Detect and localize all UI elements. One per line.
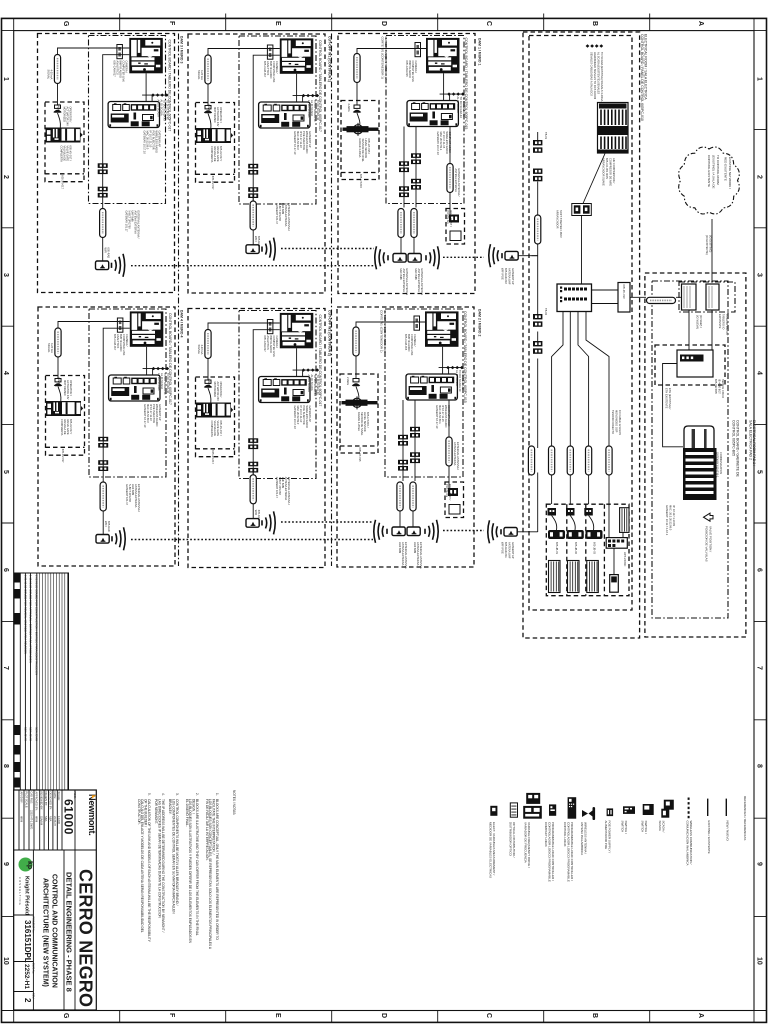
svg-text:FO CABLE 12 HILOS: FO CABLE 12 HILOS xyxy=(618,410,622,435)
svg-text:CONTROL BOARD / PANEL DE CONTR: CONTROL BOARD / PANEL DE CONTROL 605PC-0… xyxy=(640,34,644,121)
svg-text:3.: 3. xyxy=(175,793,179,796)
svg-text:NBA JS AR: NBA JS AR xyxy=(24,727,28,741)
svg-text:GATEWAY: 10.11.7.1.10.1: GATEWAY: 10.11.7.1.10.1 xyxy=(665,505,669,536)
svg-text:APPROVED BY:: APPROVED BY: xyxy=(35,792,39,811)
svg-text:MAC: 26.5.26.52.99.0: MAC: 26.5.26.52.99.0 xyxy=(669,505,673,531)
svg-text:kp: kp xyxy=(26,861,33,869)
svg-text:SWITCH: SWITCH xyxy=(641,821,645,833)
svg-text:IE-4000 8GT: IE-4000 8GT xyxy=(718,379,722,394)
svg-text:COMMUNICATION: COMMUNICATION xyxy=(719,452,723,474)
cell 3 xyxy=(584,508,593,516)
svg-text:(IO NEW) /: (IO NEW) / xyxy=(699,315,703,328)
svg-text:WIFI POE: WIFI POE xyxy=(501,542,505,554)
svg-text:E: E xyxy=(274,1013,281,1018)
svg-text:TB-02: TB-02 xyxy=(544,308,548,316)
svg-text:ANTENA INALAMBRICA: ANTENA INALAMBRICA xyxy=(580,822,584,855)
REVISION TABLE xyxy=(14,573,69,790)
svg-text:G: G xyxy=(62,1013,69,1019)
P2 tail xyxy=(96,477,141,550)
svg-text:SCALE:: SCALE: xyxy=(57,792,61,802)
svg-text:1:1000: 1:1000 xyxy=(57,816,61,824)
svg-text:TO CONTROL ROOM: TO CONTROL ROOM xyxy=(716,155,720,185)
svg-text:4: 4 xyxy=(756,371,763,375)
legend: vfd icon xyxy=(523,793,542,819)
svg-text:7: 7 xyxy=(2,666,9,670)
legend: optical distributor icon xyxy=(510,803,517,817)
svg-text:EXISTENTE: EXISTENTE xyxy=(718,314,722,329)
svg-text:MRM: MRM xyxy=(20,816,24,822)
svg-text:B: B xyxy=(591,1013,598,1018)
svg-text:1: 1 xyxy=(2,77,9,81)
legend: compact logix plc icon xyxy=(549,804,556,815)
svg-text:POR NEWMONT.: POR NEWMONT. xyxy=(154,799,158,824)
ZONE LETTERS TOP xyxy=(62,21,704,27)
svg-text:REG:: REG: xyxy=(73,792,77,800)
svg-text:605-RAD-011: 605-RAD-011 xyxy=(504,542,508,558)
svg-text:CONSTRUCTOR.: CONSTRUCTOR. xyxy=(137,799,141,825)
svg-text:605-JB-01: 605-JB-01 xyxy=(555,542,559,555)
svg-text:D: D xyxy=(380,1013,387,1018)
svg-text:CUT-OFF W2 (CONTINUA 2): CUT-OFF W2 (CONTINUA 2) xyxy=(328,310,332,356)
svg-text:MONOMODO OSP: MONOMODO OSP xyxy=(615,410,619,433)
zone B lower radio xyxy=(504,528,517,537)
wire capsules xyxy=(528,446,534,475)
svg-text:ETH (EXISTING) /: ETH (EXISTING) / xyxy=(668,388,672,409)
svg-text:NBA JS AR: NBA JS AR xyxy=(29,727,33,741)
svg-text:AIR COMPRESSOR /: AIR COMPRESSOR / xyxy=(612,158,616,184)
svg-text:CONTROL 605PC-B05: CONTROL 605PC-B05 xyxy=(732,420,736,456)
svg-text:LOS COMPONENTES DE CONTROL SER: LOS COMPONENTES DE CONTROL SERAN EN SU M… xyxy=(172,799,176,914)
svg-text:DAM 4 / MURO 4: DAM 4 / MURO 4 xyxy=(180,310,184,337)
svg-text:NBA: NBA xyxy=(44,816,48,822)
svg-text:BLOCKS ARE ILLUSTRATIVE AND TH: BLOCKS ARE ILLUSTRATIVE AND THEY CAN DIF… xyxy=(195,799,199,936)
svg-text:POSICION DE VALVULAS: POSICION DE VALVULAS xyxy=(705,526,709,562)
svg-text:A: A xyxy=(697,1013,704,1018)
ZONE NUMBERS LEFT xyxy=(2,77,9,965)
svg-text:F: F xyxy=(168,21,175,26)
svg-text:CAD FILE:: CAD FILE: xyxy=(30,792,34,805)
Newmont logo xyxy=(87,794,97,836)
zone B upper radio xyxy=(505,251,518,260)
right column labels xyxy=(732,420,757,478)
legend: wireless dotted symbol xyxy=(688,798,690,820)
legend: wireless antenna icon xyxy=(582,807,595,820)
svg-text:AL SCADA (EXISTENTE) SENALES: AL SCADA (EXISTENTE) SENALES xyxy=(597,52,601,94)
legend: poe power supply icon xyxy=(607,808,614,816)
svg-text:(IO NUEVA): (IO NUEVA) xyxy=(696,315,700,329)
svg-text:TO EXISTING IO /: TO EXISTING IO / xyxy=(725,314,729,336)
patch box to gateway link lines xyxy=(592,290,619,304)
four field wires with jogs xyxy=(552,312,609,505)
svg-text:5: 5 xyxy=(2,470,9,474)
gateway device xyxy=(683,426,717,500)
right column inner dash-dot box xyxy=(652,281,728,618)
svg-text:NEW / NUEVO: NEW / NUEVO xyxy=(726,821,730,842)
svg-text:FIN DE FACILITAR LA INTERPRETA: FIN DE FACILITAR LA INTERPRETACION. xyxy=(205,799,209,861)
svg-text:EL DISENO FINAL.: EL DISENO FINAL. xyxy=(185,799,189,827)
svg-text:BRADLEY.: BRADLEY. xyxy=(168,799,172,815)
svg-text:DETAIL ENGINEERING - PHASE 8: DETAIL ENGINEERING - PHASE 8 xyxy=(65,872,74,992)
svg-text:10: 10 xyxy=(756,957,763,965)
svg-text:8: 8 xyxy=(2,764,9,768)
svg-text:7: 7 xyxy=(756,666,763,670)
wire switch to gateway xyxy=(663,364,683,447)
ZONE TICKS TOP/BOTTOM xyxy=(120,14,650,1023)
svg-text:SWITCH CISCO: SWITCH CISCO xyxy=(721,379,725,398)
605PC-010 narrow box xyxy=(618,283,630,313)
ZONE TICKS LEFT/RIGHT xyxy=(2,129,767,916)
svg-text:GATEWAY AP: GATEWAY AP xyxy=(511,542,515,559)
svg-text:D: D xyxy=(380,21,387,26)
DAM labels xyxy=(180,36,482,356)
svg-text:TENDIDO DIRECTO: TENDIDO DIRECTO xyxy=(611,410,615,434)
svg-text:HARDWIRED SIGNALS TO DCS ROOM: HARDWIRED SIGNALS TO DCS ROOM xyxy=(593,52,597,99)
svg-text:IP: 10.117.1.10.99: IP: 10.117.1.10.99 xyxy=(672,505,676,527)
cell 4 plc box xyxy=(606,538,627,549)
svg-text:5.: 5. xyxy=(147,793,151,796)
info rows xyxy=(20,792,62,830)
svg-text:EXISTING NETWORK /: EXISTING NETWORK / xyxy=(728,157,732,189)
svg-text:2.: 2. xyxy=(195,793,199,796)
cell 4 striped box xyxy=(620,508,629,533)
svg-text:(IO EXISTENTE): (IO EXISTENTE) xyxy=(705,235,709,255)
svg-text:C: C xyxy=(485,1013,492,1018)
ZONE LETTERS BOTTOM xyxy=(62,1013,704,1019)
valve position hollow arrow xyxy=(704,513,714,521)
svg-text:10: 10 xyxy=(2,957,9,965)
svg-text:B: B xyxy=(591,21,598,26)
svg-text:CONTROL LOGIX: CONTROL LOGIX xyxy=(563,822,567,847)
svg-text:ETH EXISTENTE: ETH EXISTENTE xyxy=(665,388,669,409)
legend: scada icon xyxy=(661,800,674,818)
svg-text:605-JB-02: 605-JB-02 xyxy=(574,542,578,555)
svg-text:ARRANCADOR SUAVE: ARRANCADOR SUAVE xyxy=(602,158,606,186)
svg-text:CONSULTING: CONSULTING xyxy=(18,877,22,906)
svg-text:G: G xyxy=(62,21,69,27)
svg-text:2: 2 xyxy=(23,998,32,1003)
RIGHT COLUMN outer dashed box xyxy=(645,273,746,637)
svg-text:DRAWN BY:: DRAWN BY: xyxy=(44,792,48,807)
panel P1 DAM3 xyxy=(38,34,175,293)
svg-text:4: 4 xyxy=(2,371,9,375)
legend: new line symbol xyxy=(725,799,727,816)
zone B misc texts xyxy=(544,132,627,567)
cut-off separator line 2 xyxy=(331,34,333,567)
svg-text:ARCHITECTURE (NEW SYSTEM): ARCHITECTURE (NEW SYSTEM) xyxy=(42,878,49,987)
svg-text:(IO EXISTING): (IO EXISTING) xyxy=(709,235,713,252)
svg-text:TABLERO IO: TABLERO IO xyxy=(722,314,726,329)
legend: elect variables meter icon xyxy=(490,806,497,816)
svg-text:1 15.03.20 ISSUED FOR APPROV: 1 15.03.20 ISSUED FOR APPROVAL / EMITIDO… xyxy=(29,575,33,663)
EXISTING NETWORK CLOUD xyxy=(679,147,740,214)
TITLE BLOCK xyxy=(14,790,97,1010)
svg-text:DAM 3 / MURO 3: DAM 3 / MURO 3 xyxy=(180,36,184,63)
svg-text:1: 1 xyxy=(756,77,763,81)
svg-text:605-PC-010: 605-PC-010 xyxy=(622,285,626,300)
svg-text:2252-H1: 2252-H1 xyxy=(23,964,30,989)
IO card 2 xyxy=(706,284,719,310)
ZONE NUMBERS RIGHT xyxy=(756,77,763,965)
P3 tail xyxy=(246,196,291,261)
svg-text:A: A xyxy=(697,21,704,26)
svg-text:2: 2 xyxy=(756,175,763,179)
svg-text:CUT-OFF W1 (CONTINUA 1): CUT-OFF W1 (CONTINUA 1) xyxy=(328,36,332,82)
title block grid xyxy=(14,790,97,850)
svg-text:CONTROL EXISTENTE: CONTROL EXISTENTE xyxy=(707,155,711,187)
svg-text:8: 8 xyxy=(756,764,763,768)
svg-text:TO SCADA (EXISTING) SIGNALS 4-: TO SCADA (EXISTING) SIGNALS 4-20mA xyxy=(600,52,604,102)
wires IO to switch xyxy=(689,310,712,350)
svg-text:605-SW-B05: 605-SW-B05 xyxy=(714,379,718,394)
svg-text:DWG No.: DWG No. xyxy=(32,963,36,974)
svg-text:COMPRESOR DE AIRE: COMPRESOR DE AIRE xyxy=(609,158,613,186)
svg-text:9: 9 xyxy=(2,862,9,866)
svg-text:ANTENA UHF: ANTENA UHF xyxy=(508,268,512,285)
svg-text:2 02.06.20 ISSUED FOR CONSTR: 2 02.06.20 ISSUED FOR CONSTRUCTION / EMI… xyxy=(35,575,39,675)
svg-text:NBA: NBA xyxy=(49,816,53,822)
P4 tail xyxy=(246,470,291,535)
svg-text:F: F xyxy=(168,1013,175,1018)
lower cells dashed box xyxy=(546,504,629,596)
panel P4 xyxy=(188,309,325,568)
legend: switch icon 1 xyxy=(643,804,654,815)
svg-text:GIA/AM: GIA/AM xyxy=(40,816,44,825)
legend: control logix plc icon xyxy=(568,797,577,819)
svg-text:REFERENCES / REFERENCIAS: REFERENCES / REFERENCIAS xyxy=(743,796,747,840)
svg-text:RED EXISTENTE: RED EXISTENTE xyxy=(724,157,728,181)
svg-text:MEDIDOR DE VARIABLES ELECTRICA: MEDIDOR DE VARIABLES ELECTRICAS xyxy=(489,822,493,878)
svg-text:DAM 1 / MURO 1: DAM 1 / MURO 1 xyxy=(478,38,482,65)
P1 tail wire radio xyxy=(96,204,141,277)
legend: existing line symbol xyxy=(707,799,709,816)
svg-text:APVD BY:: APVD BY: xyxy=(20,792,24,804)
svg-text:SENALES CABLEADAS A SALA DCS: SENALES CABLEADAS A SALA DCS xyxy=(590,52,594,96)
svg-text:C: C xyxy=(485,21,492,26)
svg-text:DISTRIBUIDOR OPTICO: DISTRIBUIDOR OPTICO xyxy=(509,822,513,857)
svg-text:DESIGNED BY:: DESIGNED BY: xyxy=(49,792,53,811)
wireless dotted links xyxy=(131,249,484,540)
svg-text:DAM 2 / MURO 2: DAM 2 / MURO 2 xyxy=(478,309,482,336)
svg-text:316151DPL: 316151DPL xyxy=(23,920,32,963)
svg-text:2: 2 xyxy=(2,175,9,179)
svg-text:CERRO NEGRO: CERRO NEGRO xyxy=(76,869,96,1007)
svg-text:GATEWAY AP: GATEWAY AP xyxy=(511,268,515,285)
panel P2 DAM4 xyxy=(38,307,175,566)
svg-text:SALA ELECTRICA PAD 2: SALA ELECTRICA PAD 2 xyxy=(749,420,753,460)
svg-text:5: 5 xyxy=(756,470,763,474)
panel P5 CUT-OFF W1 xyxy=(338,34,475,296)
svg-text:SCADA: SCADA xyxy=(658,821,662,831)
cell 1 xyxy=(548,508,557,516)
svg-text:E: E xyxy=(274,21,281,26)
wire cloud to IO xyxy=(711,219,713,282)
svg-text:Knight Piésold: Knight Piésold xyxy=(24,876,30,916)
panel P3 DAM? xyxy=(188,34,325,293)
air compressor / motor device xyxy=(598,103,629,154)
svg-text:ANTENA UHF: ANTENA UHF xyxy=(508,542,512,559)
knight piesold logo xyxy=(18,858,33,916)
terminal patch box xyxy=(557,284,592,312)
svg-text:6: 6 xyxy=(2,568,9,572)
IO card 1 xyxy=(682,284,697,310)
svg-text:PLOT SCALE:: PLOT SCALE: xyxy=(25,792,29,809)
svg-text:3: 3 xyxy=(2,273,9,277)
svg-text:605-CO-001 460V: 605-CO-001 460V xyxy=(605,158,609,179)
cell 2 xyxy=(566,508,575,516)
svg-text:ALIMENTADOR POE: ALIMENTADOR POE xyxy=(604,821,608,850)
zone B diamonds to scada xyxy=(586,44,604,47)
svg-text:DATE:: DATE: xyxy=(53,792,57,800)
left chain stacks xyxy=(533,140,542,153)
svg-text:3: 3 xyxy=(756,273,763,277)
svg-text:0 21.10.19 ISSUED FOR REVIEW: 0 21.10.19 ISSUED FOR REVIEW / EMITIDO P… xyxy=(24,575,28,654)
wire down to terminal box xyxy=(581,216,583,285)
svg-text:VARIADOR DE FRECUENCIA: VARIADOR DE FRECUENCIA xyxy=(524,822,528,863)
svg-text:TB-01: TB-01 xyxy=(544,132,548,140)
svg-text:4.: 4. xyxy=(161,793,165,796)
svg-text:605-RAD-010: 605-RAD-010 xyxy=(504,268,508,284)
svg-text:1.: 1. xyxy=(215,793,219,796)
svg-text:UPS 24VDC: UPS 24VDC xyxy=(623,552,627,567)
svg-text:SOFT STARTER / 460V: SOFT STARTER / 460V xyxy=(559,210,563,238)
connector pair box zone B xyxy=(572,204,592,216)
svg-text:COMUNICACION INALAMBRICA: COMUNICACION INALAMBRICA xyxy=(685,821,689,866)
ZONE B electrical room outer dashed box xyxy=(523,32,640,638)
switch mini dashed box xyxy=(655,345,725,385)
svg-text:(EXISTING) / A SALA DE: (EXISTING) / A SALA DE xyxy=(712,155,716,189)
svg-text:6: 6 xyxy=(756,568,763,572)
cell 4 bottom device xyxy=(610,575,619,593)
svg-text:COMPACT LOGIX: COMPACT LOGIX xyxy=(544,822,548,847)
svg-text:23.06.07: 23.06.07 xyxy=(53,816,57,827)
svg-text:9: 9 xyxy=(756,862,763,866)
LEGEND references xyxy=(489,793,748,882)
svg-text:MRM: MRM xyxy=(35,816,39,822)
legend: switch icon 2 xyxy=(623,806,635,814)
NOTES block xyxy=(137,790,236,950)
wire motor to connector box xyxy=(583,154,605,204)
svg-text:NOTES / NOTAS:: NOTES / NOTAS: xyxy=(232,790,236,815)
svg-text:61000: 61000 xyxy=(62,799,76,835)
svg-text:WIFI POE: WIFI POE xyxy=(501,268,505,280)
svg-text:NBA JS AR: NBA JS AR xyxy=(35,727,39,741)
svg-text:ARRANCADOR: ARRANCADOR xyxy=(556,210,560,229)
svg-text:EXISTING / EXISTENTE: EXISTING / EXISTENTE xyxy=(707,821,711,854)
svg-text:GATEWAY 615-IT-B-1: GATEWAY 615-IT-B-1 xyxy=(716,452,720,478)
svg-text:CONTROL AND COMMUNICATION: CONTROL AND COMMUNICATION xyxy=(51,874,58,988)
zone B inner dashed box xyxy=(529,36,632,611)
panel P6 CUT-OFF W2 xyxy=(337,307,474,569)
svg-text:Newmont.: Newmont. xyxy=(87,794,97,836)
ethernet switch box xyxy=(677,350,713,377)
horizontal capsule link to zone B xyxy=(630,296,682,298)
cut-off separator line 1 xyxy=(178,34,180,567)
svg-text:2252-HT-1.DWG: 2252-HT-1.DWG xyxy=(30,810,34,829)
svg-text:605-JB-03: 605-JB-03 xyxy=(593,542,597,555)
IO cards dash-dot mini box xyxy=(679,282,735,312)
svg-text:REVIEWED BY:: REVIEWED BY: xyxy=(40,792,44,811)
svg-text:SWITCH: SWITCH xyxy=(621,821,625,833)
